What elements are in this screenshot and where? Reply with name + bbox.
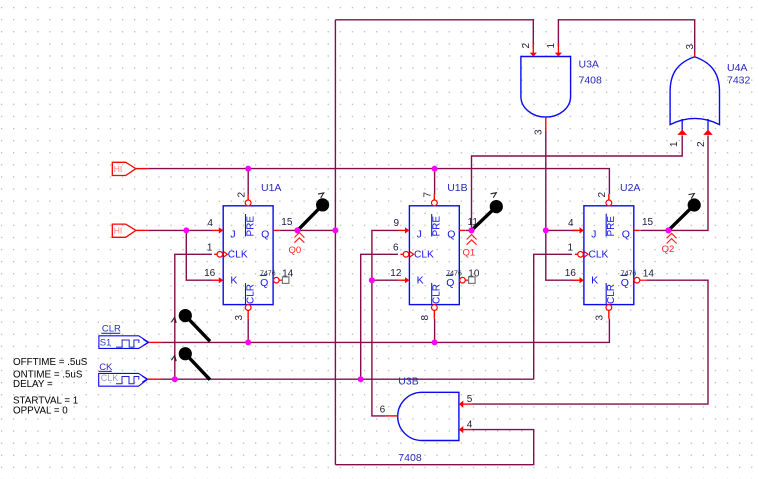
svg-text:J: J	[591, 228, 596, 240]
wire HI1 bus to U2A PRE	[148, 169, 609, 194]
node Q0 probe tap (over probe)	[295, 227, 301, 233]
wire CK line	[161, 378, 534, 380]
svg-text:15: 15	[281, 217, 293, 228]
wire U1B CLK to CK line	[361, 254, 398, 379]
net label Q2	[662, 233, 677, 254]
node U1B CLR	[432, 339, 438, 345]
svg-text:3: 3	[685, 44, 696, 50]
svg-text:2: 2	[237, 192, 248, 198]
wire HI2 to U1A J	[148, 229, 212, 231]
scope probe Q2	[669, 192, 701, 231]
svg-text:1: 1	[568, 243, 574, 254]
svg-text:U3B: U3B	[398, 376, 418, 388]
svg-text:7408: 7408	[579, 74, 603, 86]
svg-text:HI: HI	[114, 164, 123, 174]
svg-text:4: 4	[467, 419, 473, 430]
op AND gate U3B 7408	[380, 376, 473, 464]
svg-text:OPPVAL = 0: OPPVAL = 0	[13, 405, 68, 416]
JK flip-flop U2A 7476	[565, 182, 655, 321]
node U1A-PRE	[245, 166, 251, 172]
svg-text:PRE: PRE	[246, 216, 257, 237]
node Q1	[469, 227, 475, 233]
scope probe Q1	[472, 191, 503, 230]
node U1A CLR	[245, 339, 251, 345]
svg-text:S1: S1	[100, 337, 112, 348]
op OR gate U4A 7432	[669, 44, 751, 148]
svg-text:7: 7	[423, 192, 434, 198]
svg-text:U1B: U1B	[447, 182, 467, 194]
scope probe Q0	[298, 191, 329, 230]
node Q1 (over probe)	[469, 227, 475, 233]
svg-text:K: K	[417, 274, 424, 286]
wire long vertical feedback	[334, 20, 336, 465]
svg-text:12: 12	[390, 268, 402, 279]
input HI HI1	[112, 162, 148, 175]
node U2A J	[543, 227, 549, 233]
node Q0 probe tap	[295, 227, 301, 233]
svg-text:K: K	[230, 274, 237, 286]
wire U3A out to U2A J and K	[546, 131, 578, 280]
svg-text:Q1: Q1	[463, 248, 476, 259]
svg-text:CLK: CLK	[101, 373, 119, 383]
svg-text:15: 15	[642, 217, 654, 228]
svg-text:K: K	[591, 274, 598, 286]
pulse generator S1 (CLR)	[99, 324, 161, 349]
node U1A CLK tap	[172, 376, 178, 382]
svg-text:5: 5	[467, 394, 473, 405]
node Q2	[665, 227, 671, 233]
JK flip-flop U1A 7476	[204, 182, 294, 321]
wire U1B PRE stub	[434, 169, 436, 194]
wire U2A CLK to CK line	[534, 254, 572, 379]
svg-text:16: 16	[204, 268, 216, 279]
wire Q1 to U4A pin1	[466, 135, 683, 230]
svg-text:3: 3	[595, 315, 606, 321]
svg-text:1: 1	[669, 141, 680, 147]
unconnected pin square U1A pin14	[279, 279, 283, 281]
svg-text:HI: HI	[114, 226, 123, 236]
wire U4A pin2 to Q2	[640, 135, 708, 230]
wire U4A out pin3 to U3A pin1	[558, 20, 694, 53]
svg-text:Q: Q	[622, 228, 630, 240]
svg-text:6: 6	[380, 405, 386, 416]
node Q0 feedback	[332, 227, 338, 233]
node U1B K	[369, 277, 375, 283]
svg-text:2: 2	[696, 141, 707, 147]
node U1B-PRE	[432, 166, 438, 172]
svg-text:Q0: Q0	[289, 245, 302, 256]
wire HI2 split down to U1A K	[186, 230, 212, 280]
svg-text:1: 1	[546, 43, 557, 49]
wire U1A PRE stub	[247, 169, 249, 194]
svg-text:Q: Q	[260, 277, 268, 289]
svg-text:Q: Q	[447, 228, 455, 240]
svg-text:U2A: U2A	[620, 182, 640, 194]
svg-text:CLK: CLK	[589, 249, 609, 260]
svg-text:4: 4	[207, 218, 213, 229]
wire U1A CLK to CK line	[175, 254, 212, 379]
svg-text:J: J	[417, 228, 422, 240]
svg-text:2: 2	[521, 43, 532, 49]
svg-text:OFFTIME = .5uS: OFFTIME = .5uS	[13, 357, 88, 368]
svg-text:4: 4	[568, 218, 574, 229]
node HI2 split	[183, 227, 189, 233]
wire U1B CLR pin8 to CLR line	[434, 319, 436, 343]
svg-text:3: 3	[234, 315, 245, 321]
svg-text:7476: 7476	[446, 270, 462, 277]
svg-text:9: 9	[394, 218, 400, 229]
svg-text:PRE: PRE	[432, 216, 443, 237]
svg-text:CLR: CLR	[432, 284, 443, 304]
svg-text:1: 1	[207, 243, 213, 254]
wire U3A out branch to U2A J	[546, 229, 578, 231]
JK flip-flop U1B 7476	[390, 182, 480, 321]
svg-text:6: 6	[393, 243, 399, 254]
wire U3B out up to U1B J	[372, 230, 398, 416]
scope probe CLR line	[171, 309, 210, 341]
svg-text:CLK: CLK	[414, 249, 434, 260]
svg-text:14: 14	[643, 269, 655, 280]
svg-text:U1A: U1A	[261, 182, 281, 194]
pulse generator CLK (CK)	[99, 362, 161, 386]
wire CLR line	[161, 319, 609, 343]
svg-text:U4A: U4A	[727, 62, 747, 74]
svg-text:2: 2	[597, 192, 608, 198]
op AND gate U3A 7408	[521, 43, 602, 136]
svg-text:CLR: CLR	[606, 284, 617, 304]
wire U1A CLR pin3 to CLR line	[247, 319, 249, 343]
svg-text:8: 8	[420, 315, 431, 321]
unconnected pin square U1B pin10	[465, 279, 469, 281]
net label Q0	[289, 233, 305, 256]
svg-text:7408: 7408	[398, 452, 422, 464]
svg-text:3: 3	[533, 129, 544, 135]
wire top to U3A pin2	[335, 20, 533, 47]
svg-text:7476: 7476	[260, 270, 276, 277]
svg-text:PRE: PRE	[606, 216, 617, 237]
wire Q0 to long vertical	[279, 229, 335, 231]
svg-text:Q2: Q2	[662, 244, 675, 255]
wire U2A notQ to U3B pin5	[471, 280, 708, 404]
svg-text:U3A: U3A	[579, 58, 599, 70]
svg-text:DELAY =: DELAY =	[13, 379, 53, 390]
svg-text:7432: 7432	[727, 75, 751, 87]
simulation parameter annotations	[13, 357, 88, 417]
wire U3B pin4 loop to long vertical	[335, 430, 533, 465]
scope probe CK line	[171, 347, 210, 380]
svg-text:CLR: CLR	[246, 284, 257, 304]
svg-text:Q: Q	[261, 228, 269, 240]
net label Q1	[463, 235, 477, 259]
wire U1B K stub	[372, 279, 398, 281]
svg-text:16: 16	[565, 268, 577, 279]
svg-text:7476: 7476	[621, 270, 637, 277]
node Q2 (over probe)	[665, 227, 671, 233]
U2A notQ pin14 red stub	[640, 279, 647, 281]
svg-text:Q: Q	[621, 277, 629, 289]
svg-text:J: J	[230, 228, 235, 240]
svg-text:CLK: CLK	[228, 249, 248, 260]
node U1B CLK tap	[358, 376, 364, 382]
input HI HI2	[112, 224, 148, 237]
svg-text:Q: Q	[446, 277, 454, 289]
